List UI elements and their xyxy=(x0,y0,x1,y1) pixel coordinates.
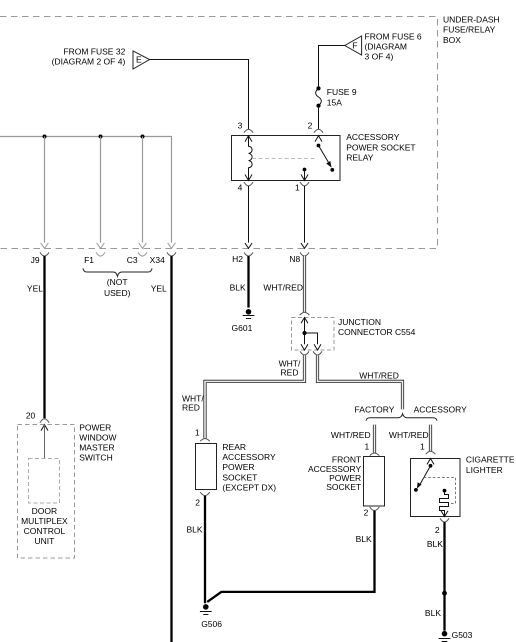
svg-text:F1: F1 xyxy=(84,255,94,265)
svg-text:JUNCTION: JUNCTION xyxy=(338,317,381,327)
svg-text:UNDER-DASH: UNDER-DASH xyxy=(443,15,500,25)
svg-text:2: 2 xyxy=(195,498,200,508)
svg-text:1: 1 xyxy=(295,182,300,192)
connector J9 xyxy=(31,252,49,265)
junction connector C554 (dashed box) xyxy=(292,318,335,351)
svg-text:POWER SOCKET: POWER SOCKET xyxy=(346,142,415,152)
svg-text:F: F xyxy=(352,40,357,50)
wire: factory branch (WHT/RED) xyxy=(373,425,376,453)
label: ACCESSORY POWER SOCKET RELAY xyxy=(346,132,415,162)
rear accessory power socket pin 1 bell xyxy=(200,439,210,442)
junction dot at J9 drop xyxy=(43,135,47,139)
relay coil xyxy=(249,136,253,181)
svg-text:SWITCH: SWITCH xyxy=(79,453,113,463)
cigarette lighter pin 1 arrow xyxy=(427,459,434,465)
svg-text:X34: X34 xyxy=(150,255,165,265)
svg-text:WHT/RED: WHT/RED xyxy=(331,430,371,440)
svg-text:FROM FUSE 32: FROM FUSE 32 xyxy=(63,47,125,57)
svg-text:1: 1 xyxy=(195,428,200,438)
wire: X34 yellow running off bottom edge xyxy=(170,256,172,642)
svg-text:E: E xyxy=(136,55,142,65)
svg-text:MASTER: MASTER xyxy=(79,443,114,453)
label: UNDER-DASH FUSE/RELAY BOX xyxy=(443,15,500,45)
cigarette lighter (box) xyxy=(411,459,461,517)
label: FROM FUSE 6 (DIAGRAM 3 OF 4) xyxy=(365,32,422,62)
wire: J9 yellow to power window master switch pin 20 xyxy=(43,256,45,418)
svg-text:REAR: REAR xyxy=(222,442,246,452)
wire: relay pin 4 to connector H2 xyxy=(245,186,252,248)
front socket pin 2 bell xyxy=(370,507,380,511)
relay pin 2 terminal xyxy=(308,120,324,141)
svg-text:CONNECTOR C554: CONNECTOR C554 xyxy=(338,327,416,337)
connector X34 xyxy=(150,252,176,265)
svg-text:YEL: YEL xyxy=(151,283,167,293)
ground G506 xyxy=(200,604,222,629)
label: DOOR MULTIPLEX CONTROL UNIT xyxy=(21,506,68,546)
svg-text:FROM FUSE 6: FROM FUSE 6 xyxy=(365,32,422,42)
label: FRONT ACCESSORY POWER SOCKET xyxy=(308,455,362,493)
svg-text:(DIAGRAM 2 OF 4): (DIAGRAM 2 OF 4) xyxy=(52,57,126,67)
svg-text:20: 20 xyxy=(26,411,36,421)
door multiplex control unit (dashed box) xyxy=(29,459,60,504)
cigarette lighter switch xyxy=(414,464,432,492)
front accessory power socket (box) xyxy=(364,457,385,507)
svg-text:LIGHTER: LIGHTER xyxy=(466,465,503,475)
svg-text:FACTORY: FACTORY xyxy=(355,405,395,415)
terminal bell at cigarette lighter pin 1 xyxy=(426,451,436,454)
terminal arrow inside power window master switch xyxy=(41,425,48,431)
C554 internal wiring and junction node xyxy=(301,318,321,351)
label: CIGARETTE LIGHTER xyxy=(466,455,515,475)
svg-text:3: 3 xyxy=(238,120,243,130)
svg-text:BLK: BLK xyxy=(230,282,246,292)
connector H2 xyxy=(232,252,253,263)
svg-text:ACCESSORY: ACCESSORY xyxy=(222,452,276,462)
wire: front socket pin 2 black to ground G506 xyxy=(207,511,374,602)
wire: connector E to relay pin 3 xyxy=(150,60,249,130)
svg-text:SOCKET: SOCKET xyxy=(222,472,257,482)
svg-text:2: 2 xyxy=(308,120,313,130)
rear accessory power socket (box) xyxy=(196,444,217,490)
label: JUNCTION CONNECTOR C554 xyxy=(338,317,416,337)
svg-text:WHT/RED: WHT/RED xyxy=(389,430,429,440)
wire: connector F to fuse 9 xyxy=(319,46,345,87)
junction dot at C3 drop xyxy=(141,135,145,139)
svg-text:N8: N8 xyxy=(289,254,300,264)
svg-text:YEL: YEL xyxy=(27,283,43,293)
wire: C554 to factory/accessory split (WHT/RED) xyxy=(318,355,403,409)
wire: bus drop to C3 xyxy=(139,137,147,249)
svg-text:2: 2 xyxy=(364,508,369,518)
svg-text:UNIT: UNIT xyxy=(34,536,54,546)
svg-text:FUSE/RELAY: FUSE/RELAY xyxy=(443,25,496,35)
connector E (from fuse 32) xyxy=(133,51,150,69)
svg-text:MULTIPLEX: MULTIPLEX xyxy=(21,516,68,526)
svg-text:RED: RED xyxy=(281,368,299,378)
rear socket pin 2 bell xyxy=(200,492,210,496)
svg-text:POWER: POWER xyxy=(79,423,111,433)
svg-text:FUSE 9: FUSE 9 xyxy=(327,87,357,97)
junction dot at F1 drop xyxy=(99,135,103,139)
label: FUSE 9 15A xyxy=(327,87,357,107)
relay internal linkage (dashed) xyxy=(252,158,316,160)
wire: rear socket pin 2 black to ground G506 xyxy=(204,496,206,604)
svg-text:SOCKET: SOCKET xyxy=(326,482,361,492)
wire: fuse 9 to relay pin 2 xyxy=(318,108,320,130)
relay U1: accessory power socket relay (box) xyxy=(232,136,341,181)
wire: bus drop to F1 xyxy=(97,137,105,249)
svg-text:ACCESSORY: ACCESSORY xyxy=(414,405,468,415)
relay pin 1 terminal xyxy=(295,175,309,193)
wire: bus drop to J9 xyxy=(41,137,49,249)
wire: C554 to rear accessory power socket (WHT/RED) xyxy=(205,355,305,438)
svg-text:BOX: BOX xyxy=(443,35,461,45)
ground G601 xyxy=(232,309,255,333)
cigarette lighter pin 2 terminal xyxy=(435,511,449,535)
label: POWER WINDOW MASTER SWITCH xyxy=(79,423,116,463)
fuse F9 xyxy=(316,86,322,107)
wire: relay pin 1 to connector N8 xyxy=(301,186,308,248)
relay pin 3 terminal xyxy=(238,120,254,141)
junction dot on cig lighter ground wire xyxy=(442,591,447,596)
cigarette lighter heating element xyxy=(440,489,449,517)
connector F (from fuse 6) xyxy=(345,36,362,55)
svg-text:1: 1 xyxy=(364,442,369,452)
svg-text:BLK: BLK xyxy=(427,539,443,549)
wire: N8 white/red to junction connector C554 xyxy=(303,256,306,312)
terminal bell at pin 20 xyxy=(40,419,49,423)
connector C3 xyxy=(127,252,147,265)
svg-text:BLK: BLK xyxy=(356,534,372,544)
wire: cigarette lighter pin 2 black to ground G503 xyxy=(443,522,445,630)
svg-text:CIGARETTE: CIGARETTE xyxy=(466,455,515,465)
wire: H2 black to ground G601 xyxy=(247,256,249,308)
brace: F1 C3 not used xyxy=(83,268,152,276)
label: WHT/ RED (left C554 output) xyxy=(279,359,301,378)
ground G503 xyxy=(439,630,473,642)
relay switch contacts xyxy=(303,144,335,181)
svg-text:WHT/RED: WHT/RED xyxy=(263,282,303,292)
svg-text:DOOR: DOOR xyxy=(32,506,58,516)
svg-text:G506: G506 xyxy=(201,619,222,629)
bus: yellow feed entering from left edge, drop to X34 xyxy=(0,137,175,249)
svg-text:BLK: BLK xyxy=(425,608,441,618)
svg-text:USED): USED) xyxy=(104,288,131,298)
svg-text:C3: C3 xyxy=(127,255,138,265)
wire: pin 20 to door multiplex control unit xyxy=(44,425,46,459)
terminal bell at front socket pin 1 xyxy=(370,453,380,456)
svg-text:3 OF 4): 3 OF 4) xyxy=(365,52,394,62)
svg-text:(EXCEPT DX): (EXCEPT DX) xyxy=(222,482,276,492)
label: REAR ACCESSORY POWER SOCKET (EXCEPT DX) xyxy=(222,442,276,492)
svg-text:RED: RED xyxy=(182,402,200,412)
label: (NOT USED) xyxy=(104,277,131,298)
connector F1 xyxy=(84,252,105,265)
C554 entry arrow xyxy=(301,318,308,324)
svg-text:CONTROL: CONTROL xyxy=(24,526,66,536)
svg-text:1: 1 xyxy=(420,442,425,452)
power window master switch (dashed box) xyxy=(18,425,75,559)
wire: accessory branch (WHT/RED) xyxy=(429,425,432,452)
relay pin 4 terminal xyxy=(238,175,254,193)
svg-text:WINDOW: WINDOW xyxy=(79,433,116,443)
svg-text:H2: H2 xyxy=(232,254,243,264)
svg-text:G503: G503 xyxy=(452,630,473,640)
svg-text:(DIAGRAM: (DIAGRAM xyxy=(365,42,408,52)
svg-text:RELAY: RELAY xyxy=(346,152,374,162)
terminal bell at C554 top xyxy=(300,312,310,315)
svg-text:2: 2 xyxy=(435,525,440,535)
brace: factory/accessory split xyxy=(366,414,437,421)
svg-text:G601: G601 xyxy=(232,323,253,333)
label: WHT/ RED (rear socket feed) xyxy=(182,393,204,412)
svg-text:POWER: POWER xyxy=(222,462,254,472)
svg-text:WHT/RED: WHT/RED xyxy=(359,370,399,380)
svg-text:15A: 15A xyxy=(327,97,342,107)
connector N8 xyxy=(289,252,309,263)
svg-text:BLK: BLK xyxy=(187,524,203,534)
terminal bells below C554 xyxy=(300,351,322,355)
cigarette lighter mechanical linkage (dashed) xyxy=(424,478,456,504)
svg-text:4: 4 xyxy=(238,182,243,192)
under-dash fuse/relay box (dashed border) xyxy=(0,17,438,249)
svg-text:(NOT: (NOT xyxy=(107,277,128,287)
svg-text:ACCESSORY: ACCESSORY xyxy=(346,132,400,142)
svg-text:J9: J9 xyxy=(31,255,40,265)
label: FROM FUSE 32 (DIAGRAM 2 OF 4) xyxy=(52,47,126,67)
